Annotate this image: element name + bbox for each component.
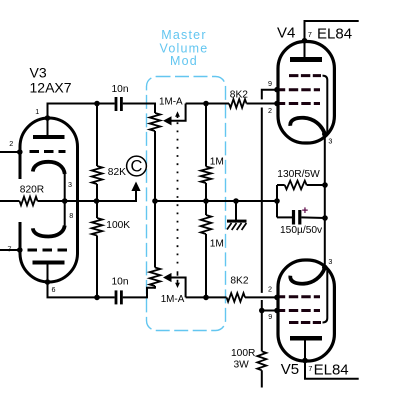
wire screen rail below crossing [261,300,263,351]
wire 10n bottom to pot jog [123,288,155,298]
svg-text:130R/5W: 130R/5W [277,169,320,180]
pot top wiper lead [171,104,186,121]
V3 plate bar top triode [33,135,65,139]
svg-text:820R: 820R [20,184,44,195]
V5 grid2 dashed row pin 9 [279,309,322,312]
svg-text:1M: 1M [210,239,224,250]
wire 820R left lead [0,200,20,202]
wire V4 pin 9 screen feed [262,90,277,100]
ganged pot dotted link [177,122,179,268]
pot bottom wiper lead [171,278,186,298]
wire 1M lower top lead [205,201,207,215]
wire 82K top lead [96,104,98,167]
capacitor C 10n top plate left [115,97,118,111]
node 1M bottom junction [203,295,209,301]
svg-text:1M-A: 1M-A [159,96,183,107]
wire V3 pin1 to top rail [48,104,115,119]
gang link arrow down [175,271,180,288]
svg-text:6: 6 [52,285,56,294]
V4 grid3 dashed row [289,74,321,77]
node V5 pin 7 [302,358,308,364]
resistor 1M lower [201,215,212,234]
resistor 8K2 bottom [227,293,245,302]
pot bottom lead [154,286,156,289]
wire wiper to 8K2 bottom [186,296,227,298]
svg-text:8K2: 8K2 [230,276,248,287]
svg-text:7: 7 [308,30,312,39]
potentiometer 1M-A bottom [150,268,161,287]
capacitor C 10n bottom plate right [120,290,123,304]
svg-text:10n: 10n [112,84,129,95]
node ground junction [233,198,239,204]
ground stub [235,201,237,220]
V3 plate lead pin 6 [47,265,49,283]
svg-text:2: 2 [9,139,13,148]
wire 100R bottom tail [261,370,263,387]
svg-text:10n: 10n [112,276,129,287]
svg-text:82K: 82K [108,167,126,178]
svg-text:100K: 100K [106,220,130,231]
wire 130R left lead [277,184,285,186]
wire RC left bracket [276,185,278,217]
potentiometer 1M-A top [150,113,161,131]
svg-text:3: 3 [328,257,332,266]
resistor 82K [92,166,103,184]
node 82K top junction [94,101,100,107]
svg-text:3W: 3W [234,359,250,370]
V5 grid3 internal link [323,270,328,323]
wire 82K bottom lead [96,184,98,201]
resistor 1M upper [201,167,212,184]
tube V5 EL84 envelope [278,260,334,361]
svg-text:12AX7: 12AX7 [30,80,72,96]
node V5 pin 3 [322,265,328,271]
capacitor 150u/50v plate right [298,210,301,225]
node V4 pin 7 [302,38,308,44]
V3 plate lead pin 1 [47,104,49,136]
wire pin 2 to left edge [0,151,20,153]
node 82K-100K junction [94,198,100,204]
pot top wiper arrow [163,116,172,125]
node V4 pin 9 [274,87,280,93]
svg-text:EL84: EL84 [314,361,349,378]
gang link arrow up [175,111,180,118]
wire V3 pin6 to bottom rail [48,282,115,297]
V4 top wire pin 7 [305,21,359,41]
svg-text:3: 3 [68,180,72,189]
wire pin 7 to left edge [0,249,20,251]
wire pot column [154,131,156,268]
svg-text:1M: 1M [210,157,224,168]
node C marker wire [97,189,137,202]
wire 100K bottom lead [96,236,98,298]
V3 plate bar bottom triode [33,261,65,265]
resistor 8K2 top [229,99,247,108]
svg-text:9: 9 [268,79,272,88]
wire 1M lower bottom lead [205,234,207,297]
node V5 pin 9 [274,308,280,314]
resistor 130R/5W [285,181,307,190]
resistor 100R 3W [257,351,266,370]
V5 grid1 dashed row pin 2 [279,295,322,298]
V4 plate lead [304,41,306,58]
svg-text:8K2: 8K2 [230,89,248,100]
V4 plate bar [290,57,322,62]
node RC left junction [274,198,280,204]
svg-text:3: 3 [328,136,332,145]
capacitor C 10n top plate right [120,97,123,111]
tube V4 EL84 envelope [278,42,334,144]
V3 cathode lead pins 3-8 [64,174,66,226]
ground [227,220,247,230]
resistor 100K [92,218,103,236]
V3 cathode arc top triode [33,162,65,174]
svg-text:EL84: EL84 [317,25,352,42]
svg-text:7: 7 [308,364,312,373]
node pin 2 [17,149,23,155]
wire 100K top lead [96,201,98,218]
wire mid rail pots to RC network [155,200,277,202]
capacitor 150u/50v plate left [292,210,295,225]
wire 150u right lead [301,216,325,219]
wire 130R right lead [307,184,325,186]
svg-text:C: C [131,158,143,176]
node cathode junction [62,198,68,204]
svg-text:V4: V4 [277,24,295,41]
node V3 pin 6 [45,279,51,285]
wire V5 pin 9 to screen rail [262,310,277,312]
V5 grid3 dashed row [289,321,321,324]
wire cathode rail V4 pin3 to V5 pin3 [324,134,326,268]
wire screen rail vertical [261,108,263,293]
wire 1M upper top lead [205,104,207,167]
pot bottom wiper arrow [163,273,172,282]
capacitor C 10n bottom plate left [115,290,118,304]
node 100K bottom junction [94,295,100,301]
V3 grid dashed bottom triode [28,249,69,252]
envelope gap for 820R [16,179,24,222]
V4 cathode arc [290,118,324,133]
node 1M top junction [203,101,209,107]
svg-text:150µ/50v: 150µ/50v [280,225,323,236]
svg-text:1M-A: 1M-A [161,294,185,305]
V5 bottom wire pin 7 [305,361,359,379]
node V4 pin 2 [274,101,280,107]
node V4 pin 3 [322,131,328,137]
wire 8K2 bottom to V5 pin 2 [245,296,277,298]
V3 grid dashed top triode [30,150,66,153]
svg-text:100R: 100R [231,348,255,359]
node pin 7 [17,247,23,253]
wire wiper to 8K2 top [186,103,229,105]
svg-text:Mod: Mod [170,54,198,68]
V4 grid1 dashed row pin 2 [279,102,322,105]
V5 plate lead [304,341,306,361]
V3 cathode arc bottom triode [33,226,65,237]
svg-text:V5: V5 [281,361,299,378]
V4 grid3 internal link [323,76,328,132]
master volume mod boundary box [147,77,226,331]
node RC top right junction [322,182,328,188]
svg-text:V3: V3 [30,64,47,80]
V5 cathode arc [290,268,324,283]
wire 150u left lead [277,216,292,218]
tube V3 12AX7 envelope [20,118,78,282]
node C copyright circle [127,156,147,176]
svg-text:8: 8 [69,211,73,220]
node V3 pin 1 [45,115,51,121]
svg-text:2: 2 [268,106,272,115]
node screen rail junction [259,308,265,314]
node C arrow [131,182,140,192]
wire 8K2 to V4 pin 2 [247,103,278,105]
node 1M mid junction [203,198,209,204]
svg-text:9: 9 [268,312,272,321]
V4 grid2 dashed row pin 9 [279,88,322,91]
svg-text:2: 2 [268,284,272,293]
node RC bottom right junction [322,215,328,221]
V5 plate bar [290,336,322,341]
wire 820R to cathode junction [38,200,97,202]
svg-text:1: 1 [35,107,39,116]
svg-text:Master: Master [161,28,206,42]
resistor 820R [20,197,38,206]
wire 10n to pot input [123,104,155,114]
node pot mid junction [152,198,158,204]
svg-text:+: + [302,205,308,217]
node V5 pin 2 [274,295,280,301]
wire 1M upper bottom lead [205,183,207,201]
